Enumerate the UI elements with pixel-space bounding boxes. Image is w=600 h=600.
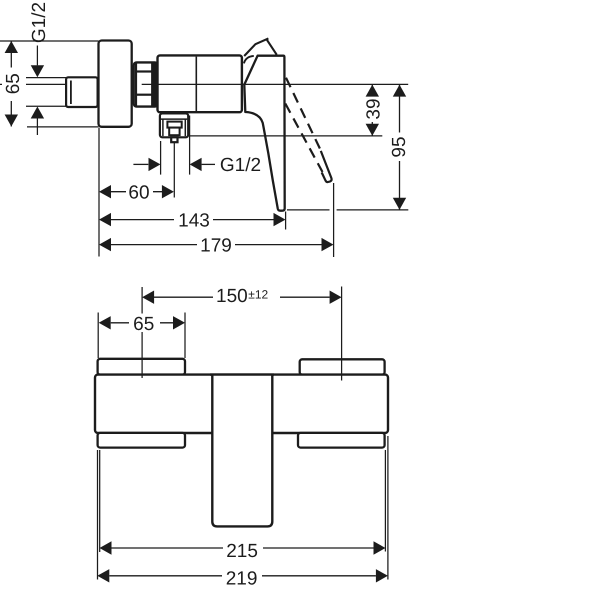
- 219 right extension: [387, 436, 389, 580]
- 179 dim line: [111, 244, 322, 246]
- 215 dim line: [112, 547, 374, 549]
- 219 left extension: [97, 450, 99, 580]
- 65 left dim line: [10, 41, 12, 127]
- svg-text:G1/2: G1/2: [220, 155, 261, 176]
- 95 reference line: [287, 209, 330, 211]
- 219 arrows: [97, 569, 109, 582]
- nut facet edge bottom: [136, 94, 152, 96]
- outlet nipple upper: [167, 122, 181, 128]
- right escutcheon top lip: [300, 359, 385, 374]
- wall union inner chamfer line: [70, 81, 72, 105]
- lever open position solid tip: [321, 151, 332, 182]
- centerline left segment: [0, 83, 67, 85]
- svg-text:143: 143: [178, 210, 210, 231]
- outlet fitting flange line: [161, 118, 187, 120]
- 219 dim line: [109, 575, 376, 577]
- 65 right extension (bottom view): [184, 313, 186, 359]
- escutcheon bottom extension: [27, 126, 99, 128]
- 215 left extension: [99, 450, 101, 552]
- lever open position dashed left edge: [285, 104, 322, 173]
- svg-text:95: 95: [389, 136, 410, 157]
- left extension (60/143/179): [98, 128, 100, 257]
- outlet thread tip: [171, 137, 177, 142]
- nut facet line left: [135, 64, 137, 106]
- square top extension: [26, 77, 66, 79]
- escutcheon top extension: [0, 40, 99, 42]
- lever open position dashed right edge: [286, 78, 321, 152]
- handle pivot arc: [244, 56, 254, 64]
- svg-text:65: 65: [133, 314, 154, 335]
- 215 right extension: [384, 450, 386, 552]
- 60 dim line: [111, 191, 162, 193]
- mixer body: [158, 55, 242, 112]
- 150 left extension: [141, 287, 143, 378]
- handle tip extension: [285, 212, 287, 230]
- svg-text:150: 150: [216, 286, 248, 307]
- G1/2 dim line left part: [133, 163, 148, 165]
- handle lever (closed, pointing down): [244, 56, 284, 211]
- 179 right extension: [333, 183, 335, 257]
- wall union square (G1/2 inlet): [66, 77, 98, 107]
- 143 arrows: [99, 213, 111, 226]
- 95 arrows: [393, 85, 406, 97]
- 65 left dim arrows: [5, 41, 18, 53]
- left escutcheon top lip: [98, 359, 185, 375]
- outlet centerline extension: [173, 143, 175, 198]
- nut right facet (dark): [151, 63, 157, 106]
- 39 dim line: [371, 85, 373, 136]
- svg-text:G1/2: G1/2: [29, 2, 50, 43]
- nut facet edge top: [136, 70, 152, 72]
- outlet nipple lower: [169, 128, 179, 136]
- 60 arrows: [99, 185, 111, 198]
- 39 arrows: [366, 85, 379, 97]
- 65 bottom dim line: [111, 322, 173, 324]
- G1/2 leader lower: [36, 119, 38, 136]
- 150 right extension: [341, 287, 343, 381]
- square bottom extension: [26, 105, 66, 107]
- outlet fitting facet right: [184, 119, 186, 136]
- svg-text:60: 60: [128, 182, 149, 203]
- G1/2 outlet arrows: [149, 158, 161, 171]
- 179 arrows: [99, 238, 111, 251]
- centerline right segment: [142, 83, 409, 85]
- 39 reference line: [190, 135, 382, 137]
- 65 bottom arrows: [99, 316, 111, 329]
- 65 left extension (bottom view): [97, 313, 99, 359]
- body bar: [95, 375, 388, 433]
- lever raised position outline left: [244, 38, 268, 56]
- left escutcheon bottom lip: [98, 433, 185, 448]
- svg-text:39: 39: [363, 98, 384, 119]
- svg-text:65: 65: [3, 73, 24, 94]
- lever raised position outline right: [266, 39, 276, 55]
- svg-text:±12: ±12: [248, 288, 268, 302]
- outlet thread left extension: [160, 141, 162, 175]
- G1/2 leader upper: [36, 46, 38, 66]
- G1/2 wall arrows: [31, 65, 44, 77]
- outlet thread right extension: [189, 116, 191, 175]
- handle (front, pointing down): [212, 375, 272, 527]
- svg-text:215: 215: [226, 541, 258, 562]
- outlet fitting facet left: [162, 119, 164, 136]
- svg-text:179: 179: [200, 236, 232, 257]
- G1/2 dim line right part: [202, 163, 215, 165]
- 95 reference line right part: [337, 209, 409, 211]
- escutcheon (side): [99, 41, 132, 127]
- right escutcheon bottom lip: [298, 433, 385, 448]
- 150 arrows: [142, 291, 154, 304]
- body internal vertical line: [195, 57, 197, 111]
- outlet fitting below body: [160, 113, 188, 137]
- 215 arrows: [100, 541, 112, 554]
- 150 dim line: [154, 296, 330, 298]
- svg-text:219: 219: [226, 568, 258, 589]
- 143 dim line: [111, 219, 274, 221]
- 95 dim line: [399, 85, 401, 210]
- union nut (hex, side): [134, 62, 158, 106]
- bar top edge across handle: [210, 373, 274, 375]
